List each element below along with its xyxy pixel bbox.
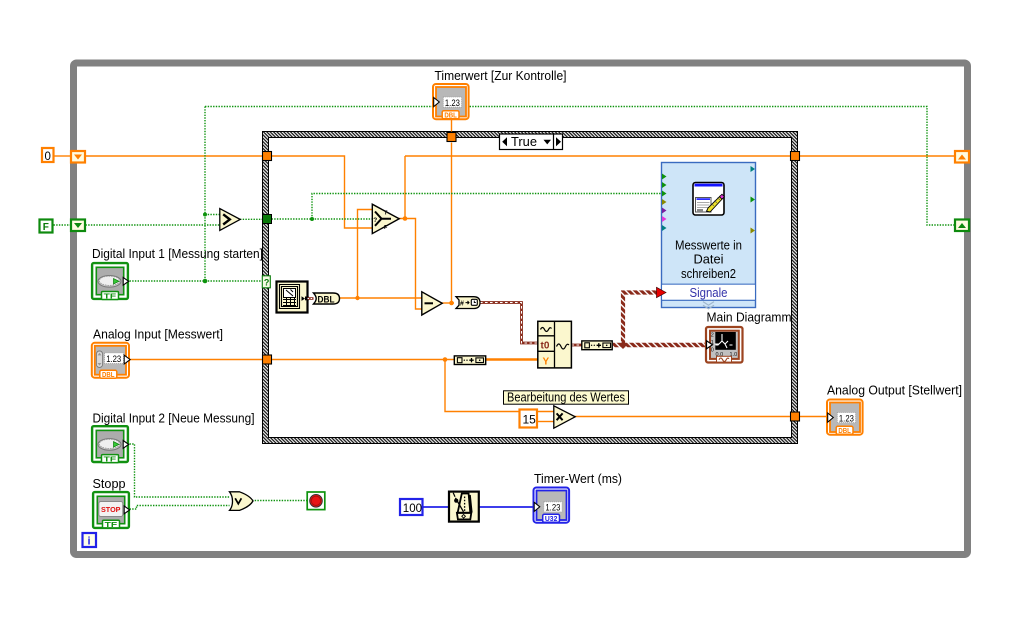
- convert to DBL express node: [277, 282, 309, 313]
- svg-text:t0: t0: [541, 341, 550, 352]
- wire vertical boolean x205: [204, 107, 206, 282]
- wire subtract out up to Timerwert tunnel: [451, 143, 453, 304]
- svg-text:?: ?: [373, 217, 377, 224]
- wire boolean branch to Express VI: [312, 194, 661, 220]
- tunnel orange top Timerwert: [447, 133, 456, 142]
- junction DBL to select-t branch: [355, 296, 359, 300]
- case selector label True: [500, 134, 563, 150]
- svg-text:?: ?: [264, 277, 270, 287]
- Express VI Messwerte in Datei schreiben2: [662, 163, 756, 309]
- wire 100-const to wait ms: [424, 506, 449, 508]
- wire waveform out to to-dynamic node (maroon): [572, 344, 582, 347]
- tunnel orange right y156: [791, 152, 800, 161]
- wire Timerwert tunnel to indicator: [451, 120, 453, 132]
- multiply node: [554, 406, 575, 428]
- svg-text:0: 0: [45, 151, 51, 163]
- wire branch up to select t input: [358, 210, 373, 299]
- wire Digital Input 2 to OR gate: [130, 444, 230, 497]
- shift register right orange: [955, 151, 969, 163]
- wire DBL tag to subtract x input: [339, 297, 422, 299]
- wire dynamic data to Main Diagramm (candy): [613, 343, 706, 348]
- iteration terminal i: [83, 533, 97, 548]
- wire Stopp to OR gate: [130, 506, 230, 510]
- svg-text:Analog Output [Stellwert]: Analog Output [Stellwert]: [827, 383, 962, 398]
- wire Digital Input 1 to case selector: [130, 280, 262, 282]
- svg-text:DBL: DBL: [444, 111, 457, 120]
- shift register left orange: [71, 151, 85, 163]
- svg-text:Y: Y: [543, 357, 550, 368]
- tunnel orange left y359: [263, 355, 272, 364]
- wire wait ms to Timer-Wert: [480, 506, 534, 508]
- junction subtract output branch: [449, 301, 454, 306]
- wire dynamic data branch to Express VI (candy): [621, 293, 657, 346]
- svg-text:Analog Input [Messwert]: Analog Input [Messwert]: [93, 327, 223, 342]
- wire F-const to left green SR: [54, 224, 71, 226]
- svg-text:100: 100: [403, 503, 422, 515]
- wire OR out to loop stop terminal: [252, 500, 307, 502]
- Analog Input DBL control terminal: [92, 343, 130, 379]
- junction boolean at Digital Input 1: [203, 279, 208, 284]
- or gate: [230, 492, 254, 511]
- wire multiply out to right tunnel: [575, 416, 791, 418]
- svg-text:Stopp: Stopp: [93, 476, 126, 491]
- constant 15: [520, 410, 538, 428]
- express left input arrows: [662, 174, 667, 232]
- svg-text:U32: U32: [545, 514, 558, 523]
- tunnel orange left y156: [263, 152, 272, 161]
- svg-text:1.23: 1.23: [545, 503, 560, 513]
- svg-text:1.23: 1.23: [839, 413, 854, 423]
- case selector terminal: [262, 276, 270, 288]
- wire greater out to green tunnel: [240, 218, 262, 220]
- svg-text:Digital Input 2 [Neue Messung]: Digital Input 2 [Neue Messung]: [93, 411, 255, 426]
- svg-text:#: #: [460, 301, 464, 308]
- svg-text:Bearbeitung des Wertes: Bearbeitung des Wertes: [507, 390, 625, 405]
- svg-text:TF: TF: [104, 292, 117, 301]
- wire subtract out to timestamp pill: [442, 302, 455, 304]
- svg-text:Digital Input 1 [Messung start: Digital Input 1 [Messung starten]: [92, 246, 263, 261]
- svg-text:0: 0: [711, 348, 714, 354]
- shift register right green: [955, 220, 969, 232]
- svg-text:Main Diagramm: Main Diagramm: [707, 310, 792, 325]
- Timerwert DBL indicator terminal: [433, 84, 469, 120]
- express signale input red arrow: [657, 287, 667, 297]
- loop stop terminal: [307, 492, 325, 510]
- wire tunnel to build array: [272, 359, 455, 361]
- Digital Input 2 TF control terminal: [92, 426, 129, 464]
- greater node: [220, 209, 240, 231]
- svg-text:TF: TF: [104, 455, 117, 464]
- Stopp TF control terminal: [93, 492, 130, 529]
- wire junction to greater node x input: [205, 214, 220, 216]
- svg-text:1.23: 1.23: [106, 354, 121, 364]
- wire boolean top run to right: [205, 107, 955, 226]
- Analog Output DBL indicator terminal: [827, 400, 863, 436]
- junction select output branch: [403, 216, 408, 221]
- Digital Input 1 TF control terminal: [92, 263, 129, 301]
- wire tunnel to select f input: [272, 156, 373, 228]
- wire green tunnel to select s input: [272, 218, 373, 220]
- Main Diagramm chart terminal: [706, 327, 743, 363]
- constant 100: [400, 499, 423, 515]
- wire select output to subtract y input: [399, 219, 422, 310]
- junction boolean to Express VI: [310, 217, 314, 221]
- wire left SR to case tunnel: [86, 155, 264, 157]
- constant 0: [42, 148, 54, 163]
- svg-text:Signale: Signale: [690, 285, 728, 300]
- svg-text:DBL: DBL: [102, 370, 115, 379]
- svg-text:TF: TF: [105, 520, 118, 529]
- wire y156 to right tunnel: [405, 155, 790, 157]
- svg-text:i: i: [88, 536, 91, 548]
- wire build array to waveform Y input: [486, 358, 538, 361]
- svg-text:schreiben2: schreiben2: [681, 266, 736, 281]
- junction dynamic wire: [619, 341, 627, 349]
- svg-text:Timer-Wert (ms): Timer-Wert (ms): [534, 471, 622, 486]
- shift register left green: [71, 220, 85, 232]
- express right output arrows: [751, 166, 756, 234]
- wire select output up to y156: [404, 156, 406, 219]
- express icon: [693, 183, 724, 216]
- wire 0-const to left shift register: [54, 155, 70, 157]
- mini dynamic wire to DBL tag: [308, 297, 314, 300]
- svg-text:F: F: [43, 222, 49, 233]
- svg-text:15: 15: [523, 413, 537, 427]
- svg-text:DBL: DBL: [838, 426, 851, 435]
- svg-text:True: True: [511, 134, 537, 149]
- wire 15-const to multiply y input: [538, 421, 554, 423]
- wire timestamp to waveform t0 (maroon): [480, 303, 538, 344]
- constant F: [40, 220, 53, 234]
- while loop border: [74, 63, 968, 555]
- svg-text:STOP: STOP: [101, 505, 121, 514]
- svg-text:Messwerte in: Messwerte in: [675, 238, 742, 253]
- tunnel orange right y416: [791, 412, 800, 421]
- select node: [372, 204, 399, 233]
- wait ms metronome node: [449, 492, 479, 522]
- build waveform node: [538, 321, 572, 368]
- convert to dynamic data node: [582, 341, 612, 350]
- wire right tunnel to right orange SR: [800, 155, 955, 157]
- wire right tunnel to Analog Output: [800, 416, 827, 418]
- svg-text:Datei: Datei: [694, 252, 724, 267]
- svg-text:2: 2: [711, 333, 714, 339]
- to timestamp node: [456, 297, 480, 309]
- junction analog value branch: [443, 357, 448, 362]
- svg-text:DBL: DBL: [318, 294, 335, 304]
- wire branch down to multiply x input: [445, 360, 554, 412]
- svg-text:Timerwert [Zur Kontrolle]: Timerwert [Zur Kontrolle]: [435, 68, 567, 83]
- subtract node: [422, 292, 442, 315]
- build array node: [454, 356, 485, 365]
- tunnel green boolean left y219: [263, 215, 272, 224]
- label Bearbeitung des Wertes: [504, 390, 629, 405]
- wire Analog Input to tunnel: [130, 359, 264, 361]
- Timer-Wert U32 indicator terminal: [534, 488, 570, 524]
- svg-text:1.23: 1.23: [445, 98, 460, 108]
- DBL output tag: [314, 293, 340, 304]
- case structure border (True case, hatched): [262, 131, 798, 444]
- junction boolean to greater: [203, 213, 207, 217]
- wire green SR to greater node y input: [86, 224, 220, 226]
